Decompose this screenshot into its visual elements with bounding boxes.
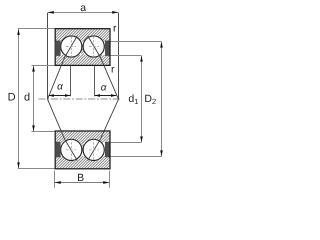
contact line upper left	[48, 36, 78, 99]
lower raceway clearance left	[60, 139, 82, 161]
svg-text:α: α	[57, 81, 63, 92]
dimension D line	[18, 29, 20, 169]
lower section inner ring band hatch	[55, 131, 109, 142]
svg-text:r: r	[113, 23, 117, 35]
upper right ball axis	[93, 36, 95, 58]
lower right ball	[83, 139, 104, 160]
dimension d1 line	[141, 56, 143, 143]
alpha arrow left right head	[65, 94, 70, 97]
extension line d top	[32, 65, 56, 67]
svg-text:r: r	[111, 63, 115, 75]
upper section outer ring band hatch	[55, 29, 109, 41]
lower left shoulder	[56, 142, 61, 157]
svg-text:α: α	[101, 83, 107, 94]
extension line d1 bottom	[110, 142, 142, 144]
axis centerline	[39, 98, 122, 100]
extension line left (pressure point)	[47, 13, 49, 99]
svg-text:d1: d1	[128, 93, 138, 106]
dimension a left arrowhead	[48, 11, 54, 14]
contact line lower left	[48, 99, 78, 160]
lower center rib hatch	[81, 141, 84, 149]
lower left ball	[61, 139, 82, 160]
alpha arrow right right head	[111, 94, 116, 97]
extension line d bottom	[32, 131, 56, 133]
dimension d line	[33, 66, 35, 132]
upper left ball axis	[70, 36, 72, 58]
alpha reference vertical right	[94, 66, 96, 96]
dimension B extension left	[54, 171, 56, 188]
alpha arrow left left head	[48, 94, 53, 97]
dimension D2 line	[161, 42, 163, 157]
upper center rib hatch	[81, 48, 84, 56]
upper right ball	[83, 36, 104, 57]
svg-text:a: a	[80, 2, 86, 14]
alpha arrow right shaft	[95, 95, 116, 97]
dimension D2 top arrowhead	[160, 42, 163, 48]
svg-text:d: d	[24, 91, 30, 103]
dimension d bottom arrowhead	[32, 125, 35, 131]
lower right ball center tick	[89, 149, 99, 151]
alpha reference vertical left	[70, 66, 72, 96]
svg-text:D: D	[8, 91, 16, 103]
dimension a line	[48, 11, 119, 13]
dimension D bottom arrowhead	[17, 162, 20, 168]
dimension D top arrowhead	[17, 29, 20, 35]
dimension D2 bottom arrowhead	[160, 150, 163, 156]
upper left ball	[61, 36, 82, 57]
dimension a right arrowhead	[112, 11, 118, 14]
upper left shoulder	[56, 41, 61, 56]
lower raceway clearance right	[83, 139, 105, 161]
upper left ball center tick	[66, 46, 76, 48]
lower left ball center tick	[66, 149, 76, 151]
lower section outer ring band hatch	[55, 156, 109, 168]
dimension B extension right	[109, 171, 111, 188]
contact line upper right	[88, 36, 119, 99]
upper right ball center tick	[89, 46, 99, 48]
dimension d top arrowhead	[32, 66, 35, 72]
extension line d1 top	[110, 55, 142, 57]
upper section inner ring band hatch	[55, 55, 109, 65]
dimension d1 top arrowhead	[140, 56, 143, 62]
extension line D2 bottom	[110, 156, 162, 158]
upper raceway clearance left	[60, 35, 82, 57]
dimension B right arrowhead	[103, 181, 109, 184]
contact line lower right	[88, 99, 119, 160]
svg-text:D2: D2	[144, 93, 156, 106]
dimension B left arrowhead	[55, 181, 61, 184]
upper right shoulder	[105, 41, 110, 56]
alpha arrow left shaft	[49, 95, 70, 97]
extension line right (pressure point)	[118, 13, 120, 99]
lower right shoulder	[105, 142, 110, 157]
dimension d1 bottom arrowhead	[140, 136, 143, 142]
alpha arrow right left head	[95, 94, 100, 97]
extension line D2 top	[110, 41, 162, 43]
lower section border	[55, 131, 110, 169]
lower right ball axis	[93, 138, 95, 160]
extension line D bottom	[18, 168, 56, 170]
upper section border	[55, 29, 110, 66]
svg-text:B: B	[77, 172, 84, 184]
extension line D top	[18, 28, 56, 30]
lower left ball axis	[70, 138, 72, 160]
dimension B line	[55, 182, 110, 184]
upper raceway clearance right	[83, 35, 105, 57]
